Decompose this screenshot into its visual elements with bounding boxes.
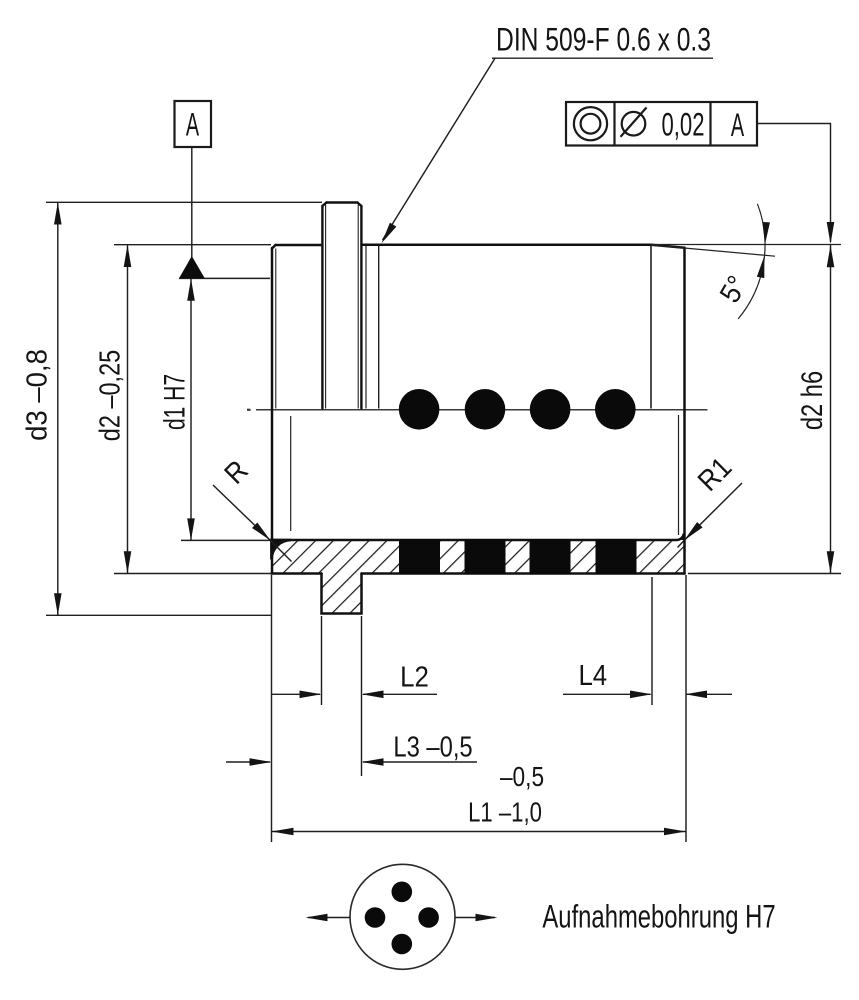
dimension d3 -0,8 — [46, 202, 322, 615]
svg-text:A: A — [731, 107, 744, 143]
bottom end view circle — [350, 864, 455, 969]
chamfer line left body — [275, 249, 277, 409]
svg-text:d1 H7: d1 H7 — [159, 374, 191, 430]
datum A box — [175, 101, 212, 257]
datum triangle — [179, 256, 205, 278]
radial hole dots on axis — [399, 389, 636, 430]
bore entry fillet R (left corner, filled) — [272, 540, 292, 560]
dimension L1 -1,0 — [272, 575, 687, 842]
svg-text:d3 –0,8: d3 –0,8 — [20, 349, 53, 441]
dimension L2 — [272, 616, 437, 705]
bore wall section top line — [291, 534, 684, 541]
centerline axis — [247, 409, 708, 411]
undercut groove left edge line — [365, 246, 367, 409]
end view hole dots — [365, 882, 439, 955]
svg-text:DIN 509-F 0.6 x 0.3: DIN 509-F 0.6 x 0.3 — [496, 23, 711, 59]
section bottom outline and flange foot — [272, 574, 685, 614]
hatched section strip — [272, 540, 685, 614]
radius leader R1 — [678, 483, 743, 548]
collar ring — [322, 203, 361, 409]
part outline left body — [272, 245, 322, 574]
dimension d1 H7 — [179, 278, 270, 540]
bore exit corner R1 wedge — [677, 534, 684, 540]
dimension d2 h6 — [688, 245, 841, 574]
bore fillet tangent edge left — [290, 416, 292, 531]
collar inner chamfer lines — [325, 205, 327, 409]
angle dimension 5 deg — [651, 204, 841, 319]
svg-text:Aufnahmebohrung H7: Aufnahmebohrung H7 — [542, 898, 775, 934]
frame leader to part — [757, 124, 834, 245]
svg-text:L2: L2 — [400, 660, 429, 693]
dimension d2 -0,25 — [114, 245, 271, 574]
svg-text:L3 –0,5: L3 –0,5 — [393, 730, 472, 763]
undercut DIN509 edge line — [378, 246, 380, 409]
svg-text:d2 h6: d2 h6 — [795, 371, 828, 430]
feature control frame (concentricity 0,02 A) — [566, 102, 757, 146]
svg-text:L1 –1,0: L1 –1,0 — [468, 797, 542, 828]
end view left arrow — [306, 914, 350, 922]
dimension L4 — [563, 577, 732, 705]
radius leader R — [213, 485, 292, 562]
svg-text:L4: L4 — [578, 659, 607, 692]
svg-text:–0,5: –0,5 — [500, 762, 544, 793]
svg-text:0,02: 0,02 — [662, 106, 705, 142]
taper start edge line — [650, 246, 652, 409]
svg-text:d2 –0,25: d2 –0,25 — [93, 350, 126, 441]
carbide insert blocks in section — [399, 539, 637, 575]
end view right arrow — [455, 914, 497, 922]
part outline right body — [362, 245, 685, 574]
svg-text:A: A — [186, 107, 199, 143]
dimension L3 -0,5 — [226, 616, 477, 776]
bore fillet tangent edge right — [678, 415, 680, 535]
